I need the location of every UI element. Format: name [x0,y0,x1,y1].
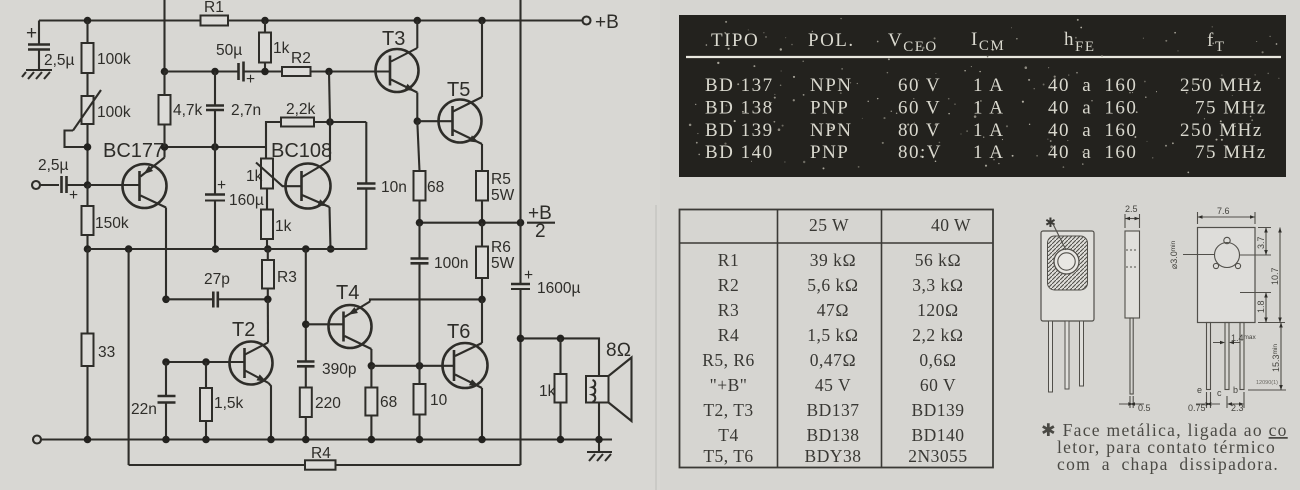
svg-text:PNP: PNP [810,98,849,119]
svg-text:R5, R6: R5, R6 [702,350,755,370]
svg-text:BC108: BC108 [271,140,332,162]
svg-text:BD 139: BD 139 [705,120,774,141]
node junction rail-1k [261,17,269,25]
svg-text:120Ω: 120Ω [917,300,959,320]
svg-text:100n: 100n [434,255,468,272]
svg-text:75 MHz: 75 MHz [1195,98,1267,119]
svg-text:R2: R2 [291,50,311,67]
svg-text:60 V: 60 V [920,375,956,395]
svg-text:1,5 kΩ: 1,5 kΩ [807,325,858,345]
node junction rail-T5 collector [478,17,486,25]
svg-text:POL.: POL. [808,30,855,51]
svg-text:1 A: 1 A [973,142,1004,163]
svg-text:+: + [26,23,37,44]
svg-text:T4: T4 [718,425,738,445]
dimension 0.75 and 2.3 [1188,392,1244,413]
resistor 1k speaker damp [539,338,567,439]
rheostat 100k (thermistor style) [73,73,131,131]
capacitor 100n [411,223,469,366]
svg-text:33: 33 [98,344,115,361]
transistor T3 [376,28,419,94]
dimension 3.7 [1240,228,1271,256]
svg-text:R3: R3 [277,269,297,286]
page crease [655,205,657,490]
values table frame [680,210,994,468]
svg-text:2,2 kΩ: 2,2 kΩ [912,325,963,345]
resistor R4 [305,445,336,470]
wire T2 emitter down [269,383,272,440]
svg-text:250 MHz: 250 MHz [1180,120,1263,141]
dimension 10.7 [1258,228,1285,323]
wire long vertical from top edge to 1600u [519,0,521,284]
resistor R2 [282,50,390,76]
svg-text:7.6: 7.6 [1217,206,1230,216]
transistor BC177 [103,140,167,208]
wire ground rail [41,436,612,444]
svg-text:160µ: 160µ [229,192,264,209]
dark table header row [711,29,1226,55]
svg-text:R3: R3 [718,300,739,320]
package front legs [1049,321,1084,392]
svg-text:12090(1): 12090(1) [1256,380,1278,386]
wire R4 feedback row right [336,464,521,466]
resistor 1,5k [200,362,244,440]
dimension 2.5 side view [1125,204,1140,228]
capacitor 27p [162,271,268,308]
wire T5 collector up [481,21,483,98]
svg-text:1.8: 1.8 [1256,300,1266,313]
package rear view body [1198,228,1256,323]
svg-text:T6: T6 [447,321,470,343]
capacitor 50u [216,42,282,88]
node junction input-base [84,181,92,189]
svg-text:T5: T5 [447,79,470,101]
wire BC108 emitter down [327,207,335,253]
svg-text:2,5µ: 2,5µ [38,157,69,174]
dimension 1.4max [1213,333,1257,344]
terminal +B [583,12,619,33]
svg-text:"+B": "+B" [710,375,748,395]
node junction T4 base column top [302,245,310,253]
dimension 7.6 rear view [1198,206,1256,224]
svg-text:68: 68 [427,179,444,196]
wire BC177 collector column [165,208,167,300]
svg-text:R4: R4 [718,325,739,345]
transistor T2 [230,319,273,385]
resistor 68 lower [365,366,397,440]
transistor T4 [329,282,372,349]
wire base BC177 [88,184,140,186]
wire T4 emitter to output row [370,299,482,301]
wire T4 collector down to T6 base row [368,349,376,370]
wire T6 emitter down [481,388,483,440]
svg-text:100k: 100k [97,51,131,68]
svg-text:390p: 390p [322,361,356,378]
svg-text:1,5k: 1,5k [214,395,244,412]
dark table row BD139 [705,120,1263,141]
wire vertical from top edge to 50u node [163,0,165,72]
resistor R5 [476,144,515,223]
svg-text:50µ: 50µ [216,42,242,59]
svg-text:0.75: 0.75 [1188,403,1206,413]
svg-text:3,3 kΩ: 3,3 kΩ [912,275,963,295]
svg-text:60 V: 60 V [898,98,941,119]
svg-text:BD138: BD138 [806,425,859,445]
dark spec table [679,15,1286,177]
wire T3 collector up [416,21,418,49]
ground symbol top-left [22,70,52,79]
wire rheostat wiper loop [65,124,88,182]
svg-text:56 kΩ: 56 kΩ [915,250,962,270]
terminal input ground [33,436,41,444]
svg-text:40 a 160: 40 a 160 [1048,120,1137,141]
wire 50u node horizontal [165,68,239,76]
dark table row BD137 [705,75,1263,96]
wire +B top rail right segment [228,19,583,21]
wire BC177 emitter to node A [163,147,165,158]
svg-text:com a chapa dissipadora.: com a chapa dissipadora. [1057,454,1279,474]
svg-text:75 MHz: 75 MHz [1195,142,1267,163]
resistor 150k [82,185,129,249]
wire BC108 collector to R2 node [329,72,330,123]
resistor R3 [262,249,297,303]
svg-text:1600µ: 1600µ [537,280,580,297]
capacitor C 2,5u supply decoupling [26,21,75,71]
svg-text:1k: 1k [246,168,263,185]
wire R4 feedback row [129,464,305,466]
wire +B top rail left segment [39,19,201,21]
svg-text:68: 68 [380,394,397,411]
wire BC108 collector up [329,122,331,161]
svg-text:10: 10 [430,392,448,409]
node junction 50u wire left [161,68,169,76]
svg-text:5W: 5W [491,187,515,204]
capacitor 2,7n [206,72,261,148]
capacitor C 2,5u input coupling [38,157,88,204]
svg-text:1k: 1k [273,40,290,57]
svg-text:40 W: 40 W [931,215,971,235]
wire feedback left vertical [128,249,130,465]
svg-text:BD140: BD140 [911,425,964,445]
svg-text:1 A: 1 A [973,98,1004,119]
svg-text:250 MHz: 250 MHz [1180,75,1263,96]
svg-text:BC177: BC177 [103,140,164,162]
ground symbol speaker [587,452,612,461]
resistor 2,2k [266,101,366,159]
svg-text:22n: 22n [131,401,157,418]
wire T2 collector up to R3 [267,299,269,342]
dimension 1.8 [1240,293,1271,323]
dimension 0.5 side view [1119,396,1151,413]
resistor 1k top [259,21,290,76]
svg-text:150k: 150k [95,215,129,232]
dark table speckle noise [689,18,1280,173]
speaker 8 ohm [586,340,632,452]
capacitor 160u [205,147,264,253]
svg-text:80:V: 80:V [898,142,942,163]
svg-text:40 a 160: 40 a 160 [1048,142,1137,163]
node junction rail-100k [84,17,92,25]
resistor 10 [414,366,448,440]
svg-text:1 A: 1 A [973,75,1004,96]
wire T6 base row [371,362,454,370]
svg-text:2,2k: 2,2k [286,101,316,118]
resistor R6 [476,223,515,304]
svg-text:3.7: 3.7 [1256,236,1266,249]
svg-text:2: 2 [535,221,546,242]
svg-text:2,7n: 2,7n [231,102,261,119]
resistor 100k upper [82,21,131,74]
dark table row BD138 [705,98,1267,119]
svg-text:e: e [1197,385,1202,395]
wire output row to speaker [521,335,600,376]
svg-text:60 V: 60 V [898,75,941,96]
svg-text:b: b [1233,385,1238,395]
svg-text:220: 220 [315,395,341,412]
capacitor 22n [131,362,176,440]
svg-text:80 V: 80 V [898,120,941,141]
tiny code text [1256,380,1278,386]
svg-text:T3: T3 [382,28,405,50]
svg-text:BD137: BD137 [806,400,859,420]
svg-text:0.5: 0.5 [1138,403,1151,413]
svg-text:BD 137: BD 137 [705,75,774,96]
svg-text:c: c [1217,388,1222,398]
svg-text:8Ω: 8Ω [606,340,631,361]
footnote [1041,420,1288,474]
svg-text:BD 140: BD 140 [705,142,774,163]
node junction 150k-feedback rail [84,245,92,253]
svg-text:+: + [217,177,226,194]
svg-text:39 kΩ: 39 kΩ [810,250,857,270]
wire T6 collector up to R6 [481,299,483,343]
resistor 1k below pot [261,210,292,253]
svg-text:BD 138: BD 138 [705,98,774,119]
svg-text:10n: 10n [381,179,407,196]
svg-text:NPN: NPN [810,120,853,141]
dimension 3.0min rotated [1169,240,1214,269]
resistor 68 upper [414,121,445,223]
asterisk marker with leader [1045,215,1066,250]
svg-text:T2, T3: T2, T3 [703,400,753,420]
capacitor 10n [357,122,407,249]
svg-text:100k: 100k [97,104,131,121]
dimension 15.3min [1248,323,1286,391]
svg-text:BDY38: BDY38 [805,446,862,466]
svg-text:4,7k: 4,7k [173,102,203,119]
svg-text:1k: 1k [275,218,292,235]
svg-text:47Ω: 47Ω [817,300,849,320]
wire T3 emitter down to T5 base node [414,93,422,125]
package side view body [1125,231,1140,394]
resistor 4,7k [159,72,203,148]
dark table row BD140 [705,142,1267,163]
svg-text:40 a 160: 40 a 160 [1048,75,1137,96]
node junction wiper-column [84,143,92,151]
capacitor 1600u [511,267,580,465]
svg-text:+B: +B [595,12,619,33]
package front view body [1041,231,1094,321]
svg-text:0,47Ω: 0,47Ω [810,350,857,370]
svg-text:T2: T2 [232,319,255,341]
svg-text:45 V: 45 V [815,375,851,395]
package rear legs with labels e c b [1197,323,1244,399]
svg-text:R5: R5 [491,171,511,188]
svg-text:PNP: PNP [810,142,849,163]
svg-text:10.7: 10.7 [1270,267,1280,285]
resistor 220 [300,388,341,440]
wire T5 base [417,120,452,122]
svg-text:T4: T4 [336,282,359,304]
svg-text:2N3055: 2N3055 [908,446,967,466]
terminal input [32,181,40,189]
svg-text:+: + [246,71,255,88]
svg-text:R2: R2 [718,275,739,295]
transistor T6 [443,321,488,390]
values table rows [702,250,968,466]
svg-text:5W: 5W [491,255,515,272]
wire mid rail y249 [88,245,367,253]
svg-text:TIPO: TIPO [711,30,759,51]
svg-text:1k: 1k [539,383,556,400]
wire +B/2 row [416,219,525,227]
svg-text:25 W: 25 W [809,215,849,235]
transistor T5 [439,79,483,146]
wire node A horizontal (4,7k / 2,7n / 160u top) [161,143,266,151]
svg-text:+: + [69,187,78,204]
svg-text:R4: R4 [311,445,331,462]
svg-text:2,5µ: 2,5µ [44,52,75,69]
capacitor 390p [297,361,356,388]
svg-text:R1: R1 [718,250,739,270]
resistor 33 [82,249,116,440]
svg-text:R6: R6 [491,239,511,256]
node junction rail-T3 collector [414,17,422,25]
label +B/2 [527,203,555,242]
svg-text:40 a 160: 40 a 160 [1048,98,1137,119]
svg-text:R1: R1 [204,0,224,16]
potentiometer 1k [246,159,302,210]
resistor R1 [201,0,229,26]
values table header [809,215,971,235]
svg-text:5,6 kΩ: 5,6 kΩ [807,275,858,295]
svg-text:T5, T6: T5, T6 [703,446,753,466]
wire T4 base column [302,249,344,362]
svg-text:0,6Ω: 0,6Ω [919,350,956,370]
svg-text:2.3: 2.3 [1231,403,1244,413]
svg-text:BD139: BD139 [911,400,964,420]
transistor BC108 [271,140,332,209]
wire T2 base [162,358,244,366]
svg-text:NPN: NPN [810,75,853,96]
svg-text:27p: 27p [204,271,230,288]
svg-text:1 A: 1 A [973,120,1004,141]
svg-text:+: + [524,267,533,284]
svg-text:2.5: 2.5 [1125,204,1138,214]
